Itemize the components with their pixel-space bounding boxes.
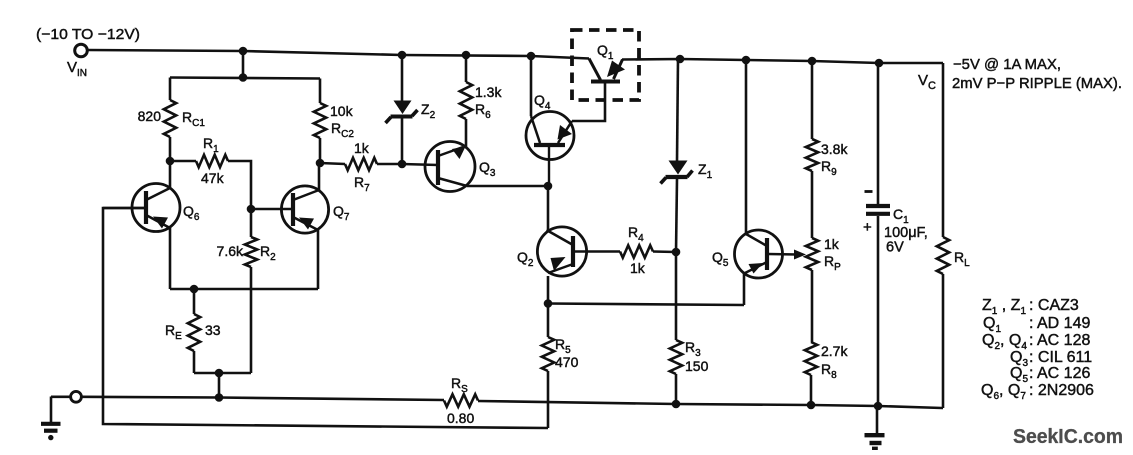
ground symbol right bbox=[865, 406, 885, 448]
transistor Q6 bbox=[103, 184, 200, 232]
wire Q5 base to RP wiper bbox=[768, 250, 806, 260]
svg-text:10k: 10k bbox=[330, 103, 354, 119]
node RC1 bottom junction bbox=[166, 157, 175, 166]
svg-text:SeekIC.com: SeekIC.com bbox=[1013, 426, 1123, 448]
svg-text:: 2N2906: : 2N2906 bbox=[1029, 382, 1094, 399]
wire emitter bus Q6 Q7 bbox=[170, 288, 318, 291]
wire Q7 emitter drop bbox=[317, 230, 320, 290]
svg-text:150: 150 bbox=[685, 358, 709, 374]
node rail junction A1 bbox=[239, 47, 248, 56]
svg-text:6V: 6V bbox=[886, 240, 904, 256]
wire Q4 collector riser bbox=[530, 56, 533, 116]
resistor RL bbox=[937, 237, 970, 408]
resistor RC1 bbox=[138, 78, 206, 162]
svg-text:2mV P−P RIPPLE (MAX).: 2mV P−P RIPPLE (MAX). bbox=[952, 75, 1122, 92]
svg-text:1k: 1k bbox=[354, 140, 370, 156]
svg-text:47k: 47k bbox=[201, 170, 225, 186]
wire Q6 collector riser bbox=[169, 161, 172, 189]
wire second rail to RC1 RC2 bbox=[170, 78, 320, 79]
node RE bottom junction bbox=[215, 369, 224, 378]
capacitor C1 bbox=[863, 63, 928, 406]
wire ground rail with RS bbox=[81, 397, 444, 400]
resistor R6 bbox=[460, 55, 503, 147]
transistor Q5 bbox=[712, 230, 783, 278]
node RC2 bottom junction bbox=[316, 159, 325, 168]
text parts list bbox=[981, 297, 1094, 402]
svg-text:470: 470 bbox=[555, 354, 579, 370]
wire Q4 emitter to Q1 base bbox=[572, 82, 605, 121]
wire top input rail bbox=[88, 50, 590, 59]
potentiometer RP bbox=[806, 236, 841, 342]
node rail junction B2 bbox=[742, 56, 751, 65]
transistor Q2 bbox=[517, 227, 587, 276]
ground symbol left bbox=[41, 397, 61, 441]
svg-text:: CAZ3: : CAZ3 bbox=[1029, 297, 1079, 314]
node Q2 emitter junction bbox=[544, 299, 553, 308]
svg-text:33: 33 bbox=[205, 322, 221, 338]
transistor Q1 bbox=[589, 42, 625, 82]
svg-text:1k: 1k bbox=[630, 260, 646, 276]
wire Q7 collector riser bbox=[318, 163, 321, 191]
transistor Q4 bbox=[526, 92, 574, 186]
node R3 bottom junction bbox=[672, 400, 681, 409]
svg-text:−5V @ 1A MAX,: −5V @ 1A MAX, bbox=[953, 56, 1061, 73]
transistor Q7 bbox=[251, 186, 350, 233]
node R4-Z1 junction bbox=[672, 248, 681, 257]
svg-text:: CIL 611: : CIL 611 bbox=[1029, 349, 1092, 366]
resistor R9 bbox=[806, 61, 849, 238]
node rail junction A2 bbox=[398, 51, 407, 60]
resistor R3 bbox=[670, 252, 709, 404]
svg-text:1k: 1k bbox=[824, 236, 840, 252]
wire ground rail right bbox=[478, 401, 943, 408]
resistor R5 bbox=[542, 304, 579, 429]
wire Q2 collector riser bbox=[547, 186, 550, 230]
svg-text:: AC 128: : AC 128 bbox=[1029, 332, 1090, 349]
svg-text:3.8k: 3.8k bbox=[821, 141, 848, 157]
resistor RE bbox=[165, 289, 251, 373]
wire Q6 emitter drop bbox=[169, 228, 172, 290]
svg-text:7.6k: 7.6k bbox=[217, 243, 244, 259]
svg-text:2.7k: 2.7k bbox=[821, 343, 848, 359]
zener diode Z2 bbox=[386, 55, 436, 164]
wire Q2 base to R4 bbox=[574, 250, 620, 253]
wire Q6 base feedback bbox=[103, 208, 548, 428]
resistor R7 bbox=[320, 140, 402, 194]
wire Q5 emitter drop bbox=[743, 273, 746, 305]
resistor R4 bbox=[620, 224, 676, 276]
svg-text:: AC 126: : AC 126 bbox=[1029, 365, 1090, 382]
transistor Q1 dashed package box bbox=[572, 30, 639, 100]
node C1 bottom junction bbox=[874, 402, 883, 411]
node VIN input terminal bbox=[36, 26, 140, 79]
node rail junction A3 bbox=[462, 51, 471, 60]
wire Q3 collector to node bbox=[467, 185, 548, 188]
svg-text:(−10 TO −12V): (−10 TO −12V) bbox=[36, 26, 140, 43]
node rail junction B1 bbox=[676, 55, 685, 64]
resistor R1 bbox=[170, 135, 251, 237]
svg-text:+: + bbox=[863, 219, 872, 236]
wire RE bottom to ground rail bbox=[218, 373, 221, 398]
transistor Q3 bbox=[402, 142, 496, 192]
wire emitter bus Q2 Q5 bbox=[548, 304, 744, 306]
resistor R8 bbox=[805, 342, 849, 405]
wire output drop to RL bbox=[942, 63, 945, 237]
svg-text:: AD 149: : AD 149 bbox=[1029, 315, 1090, 332]
zener diode Z1 bbox=[661, 59, 713, 252]
svg-text:820: 820 bbox=[138, 108, 162, 124]
node second rail junction bbox=[239, 73, 248, 82]
node Q3-Q4-Q2 junction bbox=[544, 182, 553, 191]
node R1-R2 junction bbox=[247, 205, 256, 214]
node rail junction A4 bbox=[527, 52, 536, 61]
node RE top junction bbox=[190, 285, 199, 294]
wire top output rail bbox=[622, 59, 943, 63]
node ground rail junction left bbox=[215, 393, 224, 402]
wire Q2 emitter drop bbox=[547, 276, 550, 304]
node rail junction B4 bbox=[875, 59, 884, 68]
node ground input terminal bbox=[51, 391, 81, 402]
resistor R2 bbox=[217, 237, 277, 373]
svg-text:0.80: 0.80 bbox=[447, 410, 474, 426]
node rail junction B3 bbox=[808, 57, 817, 66]
node R7-Z2 junction bbox=[398, 160, 407, 169]
wire Q5 collector riser bbox=[745, 60, 748, 234]
resistor RC2 bbox=[314, 79, 355, 164]
svg-text:1.3k: 1.3k bbox=[475, 84, 502, 100]
wire riser rail to second rail bbox=[242, 51, 245, 78]
node R8 bottom junction bbox=[807, 401, 816, 410]
resistor RS bbox=[444, 375, 478, 426]
